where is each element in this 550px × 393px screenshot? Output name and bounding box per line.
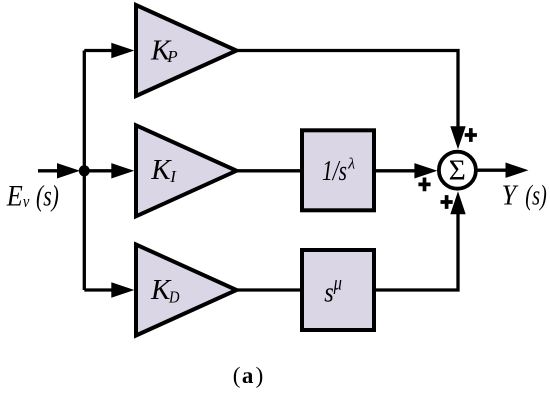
arrowhead: into KI <box>111 163 134 178</box>
gain block KP (triangle) <box>136 5 237 96</box>
svg-text:(: ( <box>233 363 241 388</box>
svg-text:v: v <box>23 192 30 211</box>
arrowhead: output <box>506 163 529 178</box>
wire: KD output to derivative box <box>237 288 303 291</box>
svg-text:(s): (s) <box>525 179 547 211</box>
svg-text:Σ: Σ <box>449 156 466 187</box>
wire: input horizontal segment <box>38 169 61 172</box>
svg-text:λ: λ <box>347 156 355 173</box>
arrowhead: into summer left <box>414 163 437 178</box>
svg-text:s: s <box>324 277 334 308</box>
wire: derivative across bottom and up to summer <box>374 213 458 290</box>
wire: top branch to KP <box>84 49 116 52</box>
arrowhead: into KD <box>111 282 134 297</box>
svg-text:D: D <box>168 287 180 306</box>
plus sign: top input <box>465 128 477 142</box>
arrowhead: into KP <box>111 43 134 58</box>
wire: bottom branch to KD <box>84 288 116 291</box>
svg-text:K: K <box>150 154 172 186</box>
svg-text:(s): (s) <box>36 179 59 212</box>
svg-text:): ) <box>256 363 264 388</box>
arrowhead: up into summer bottom <box>450 191 465 214</box>
wire: integrator to summer <box>374 169 416 172</box>
gain block KI (triangle) <box>136 125 237 216</box>
plus sign: left input <box>418 178 430 192</box>
svg-text:E: E <box>6 179 23 212</box>
svg-text:1/s: 1/s <box>322 155 347 187</box>
wire: KP output across top and down to summer <box>237 51 459 129</box>
wire: summer output <box>476 169 508 172</box>
summer circle <box>439 152 476 189</box>
arrowhead: down into summer top <box>450 126 465 149</box>
wire: KI output to integrator box <box>237 169 303 172</box>
svg-text:μ: μ <box>333 271 342 295</box>
svg-text:a: a <box>242 363 254 388</box>
block 1/s^lambda <box>302 130 374 210</box>
plus sign: bottom input <box>441 195 453 209</box>
block s^mu <box>302 250 374 330</box>
gain block KD (triangle) <box>136 245 237 336</box>
wire: vertical bus <box>83 51 86 291</box>
svg-text:P: P <box>166 47 177 66</box>
node: junction dot <box>79 165 90 176</box>
arrowhead: input into junction <box>57 163 80 178</box>
wire: middle branch to KI <box>84 169 116 172</box>
